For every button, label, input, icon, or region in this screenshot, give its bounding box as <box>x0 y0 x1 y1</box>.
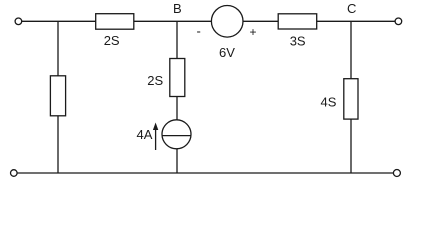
wire middle branch vertical (node B) <box>176 21 178 173</box>
arrowhead of 4A current arrow <box>153 123 158 131</box>
resistor left branch (unlabeled) <box>50 76 65 116</box>
resistor 3S (top horizontal) <box>278 14 317 29</box>
svg-text:B: B <box>173 1 182 16</box>
svg-text:C: C <box>347 1 356 16</box>
svg-text:-: - <box>197 24 201 39</box>
wire top horizontal <box>22 20 395 22</box>
svg-text:3S: 3S <box>290 33 306 48</box>
terminal bottom-right <box>393 170 400 177</box>
svg-text:2S: 2S <box>104 33 120 48</box>
wire left branch vertical <box>57 21 59 173</box>
voltage source 6V <box>211 5 243 37</box>
terminal top-right <box>395 18 402 25</box>
current source arrow 4A <box>155 128 157 150</box>
current source 4A circle <box>162 120 191 149</box>
svg-text:+: + <box>250 25 257 39</box>
wire right branch vertical (node C) <box>350 21 352 173</box>
svg-text:6V: 6V <box>219 45 235 60</box>
resistor 4S (right vertical) <box>344 79 358 119</box>
terminal top-left <box>15 18 22 25</box>
resistor 2S (top horizontal) <box>96 14 134 30</box>
wire bottom horizontal <box>17 172 393 174</box>
svg-text:4S: 4S <box>321 95 337 110</box>
resistor 2S (middle vertical) <box>170 59 185 97</box>
terminal bottom-left <box>11 170 18 177</box>
svg-text:2S: 2S <box>147 73 163 88</box>
svg-text:4A: 4A <box>137 127 153 142</box>
